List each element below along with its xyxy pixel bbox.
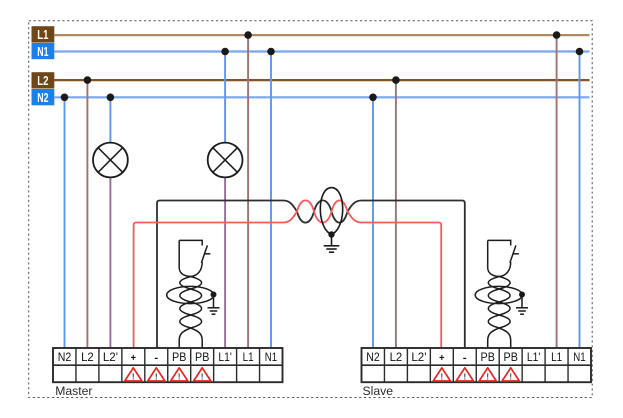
svg-text:-: - xyxy=(463,353,467,364)
wire plus: master + to slave + (red, twisted pair section) xyxy=(134,200,442,348)
svg-text:L1: L1 xyxy=(37,28,48,42)
svg-text:L1: L1 xyxy=(243,351,254,364)
warning triangle master - xyxy=(148,368,165,382)
terminal divider master 3 xyxy=(121,348,123,382)
svg-text:!: ! xyxy=(486,371,489,381)
terminal divider slave 9 xyxy=(567,348,569,382)
ground of S2 (slave) shield xyxy=(516,295,528,315)
bus label L1 xyxy=(32,26,55,42)
terminal divider slave 1 xyxy=(383,348,385,382)
svg-text:PB: PB xyxy=(195,351,210,364)
junction N1 / master N1 drop xyxy=(267,48,275,56)
svg-text:N1: N1 xyxy=(37,45,48,59)
warning triangle master + xyxy=(125,368,142,382)
bus label N2 xyxy=(32,89,55,105)
wire L2 bus to slave terminal L2 xyxy=(395,80,397,348)
terminal block master row divider xyxy=(53,364,283,366)
shield junction dot xyxy=(328,231,334,237)
wire PB twisted pair S2 (slave) xyxy=(488,240,511,348)
junction L2 / slave L2 drop xyxy=(392,76,400,84)
terminal block slave outline xyxy=(362,348,592,382)
wire L2 bus to master terminal L2 xyxy=(86,80,88,348)
terminal divider slave 4 xyxy=(452,348,454,382)
wire N1 bus to slave terminal N1 xyxy=(579,52,581,349)
terminal divider slave 6 xyxy=(498,348,500,382)
ground of S1 (master) shield xyxy=(208,295,220,315)
shield junction dot S2 (slave) xyxy=(519,292,525,298)
warning triangle slave - xyxy=(456,368,473,382)
ground of bus cable shield xyxy=(324,235,340,253)
wire bus N2 xyxy=(54,96,590,98)
svg-text:L1: L1 xyxy=(551,351,562,364)
wire N1 bus to lamp E2 xyxy=(224,52,226,143)
wire lamp E1 to master terminal L2' xyxy=(109,177,111,348)
terminal divider slave 2 xyxy=(406,348,408,382)
warning triangle master PB xyxy=(171,368,188,382)
wire N2 bus to slave terminal N2 xyxy=(372,97,374,348)
svg-text:!: ! xyxy=(155,371,158,381)
terminal divider slave 5 xyxy=(475,348,477,382)
svg-text:L2: L2 xyxy=(37,74,48,88)
junction N2 / slave N2 drop xyxy=(369,94,377,102)
svg-text:L2': L2' xyxy=(103,351,118,364)
terminal block slave row divider xyxy=(362,364,592,366)
warning triangle slave + xyxy=(433,368,450,382)
shield junction dot S1 (master) xyxy=(211,292,217,298)
wire N2 bus to lamp E1 xyxy=(109,97,111,142)
terminal divider master 6 xyxy=(190,348,192,382)
wire N1 bus to master terminal N1 xyxy=(270,52,272,349)
svg-text:L1': L1' xyxy=(218,351,231,364)
svg-text:!: ! xyxy=(201,371,204,381)
svg-text:Master: Master xyxy=(55,384,92,398)
svg-text:+: + xyxy=(131,353,136,364)
svg-text:+: + xyxy=(439,353,444,364)
terminal divider master 1 xyxy=(75,348,77,382)
junction N2 / lamp E1 drop xyxy=(107,94,115,102)
svg-text:L1': L1' xyxy=(527,351,540,364)
terminal block master outline xyxy=(53,348,283,382)
shield loop S1 (master) cable xyxy=(167,286,214,303)
junction N2 / master N2 drop xyxy=(61,94,69,102)
lamp E1 xyxy=(93,143,128,178)
terminal divider slave 7 xyxy=(521,348,523,382)
wire PB twisted pair S1 (master) xyxy=(179,240,202,348)
junction N1 / lamp E2 drop xyxy=(221,48,229,56)
junction N1 / slave N1 drop xyxy=(576,48,584,56)
lamp E2 xyxy=(208,143,243,178)
svg-text:!: ! xyxy=(132,371,135,381)
terminal divider slave 3 xyxy=(429,348,431,382)
bus label N1 xyxy=(32,43,55,59)
shield loop S2 (slave) cable xyxy=(475,286,522,303)
wire bus L1 xyxy=(54,34,590,36)
junction L2 / master L2 drop xyxy=(84,76,92,84)
push-button S2 (slave) xyxy=(488,240,519,262)
warning triangle master PB xyxy=(194,368,211,382)
wire L1 bus to master terminal L1 xyxy=(247,35,249,348)
svg-text:-: - xyxy=(154,353,158,364)
svg-text:N2: N2 xyxy=(58,351,72,364)
svg-text:L2: L2 xyxy=(81,351,94,364)
shield loop of bus cable xyxy=(320,188,342,234)
svg-text:N1: N1 xyxy=(573,351,585,364)
svg-text:!: ! xyxy=(463,371,466,381)
wire N2 bus to master terminal N2 xyxy=(64,97,66,348)
terminal divider master 5 xyxy=(167,348,169,382)
svg-text:!: ! xyxy=(440,371,443,381)
wire bus L2 xyxy=(54,79,590,81)
junction L1 / master L1 drop xyxy=(244,31,252,39)
wire bus N1 xyxy=(54,50,590,52)
svg-text:N2: N2 xyxy=(37,91,48,105)
svg-text:PB: PB xyxy=(481,351,496,364)
junction L1 / slave L1 drop xyxy=(553,31,561,39)
bus label L2 xyxy=(32,72,55,88)
svg-text:PB: PB xyxy=(172,351,187,364)
svg-text:Slave: Slave xyxy=(363,384,394,398)
svg-text:PB: PB xyxy=(504,351,519,364)
terminal divider master 9 xyxy=(259,348,261,382)
svg-text:L2: L2 xyxy=(390,351,403,364)
wire minus: master - to slave - (black, twisted pair section) xyxy=(157,200,465,348)
warning triangle slave PB xyxy=(479,368,496,382)
terminal divider master 7 xyxy=(213,348,215,382)
svg-text:L2': L2' xyxy=(411,351,426,364)
terminal divider slave 8 xyxy=(544,348,546,382)
terminal divider master 8 xyxy=(236,348,238,382)
wire L1 bus to slave terminal L1 xyxy=(556,35,558,348)
svg-text:!: ! xyxy=(509,371,512,381)
terminal divider master 2 xyxy=(98,348,100,382)
svg-text:N1: N1 xyxy=(265,351,277,364)
terminal divider master 4 xyxy=(144,348,146,382)
warning triangle slave PB xyxy=(502,368,519,382)
push-button S1 (master) xyxy=(179,240,210,262)
wire lamp E2 to master terminal L1' xyxy=(224,177,226,348)
svg-text:N2: N2 xyxy=(366,351,380,364)
svg-text:!: ! xyxy=(178,371,181,381)
